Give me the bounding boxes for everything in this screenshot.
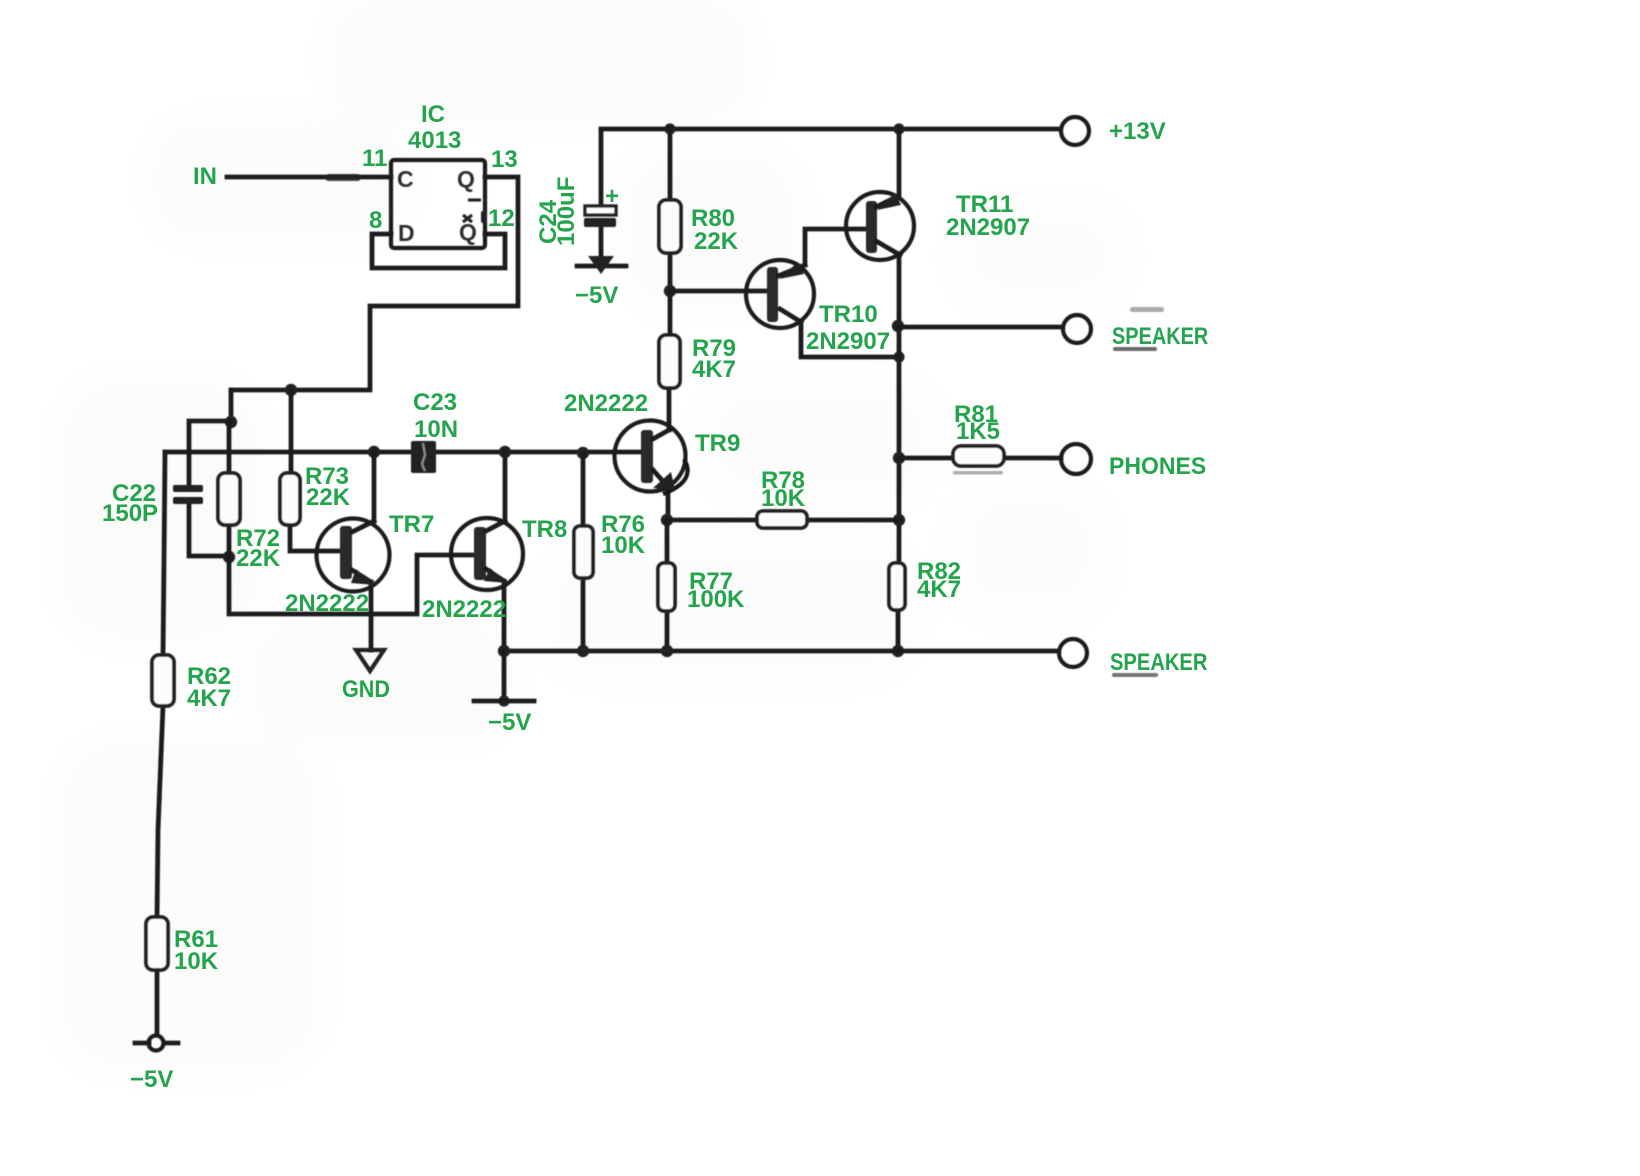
svg-text:+13V: +13V <box>1109 118 1166 145</box>
power -5V symbol under C24 <box>577 264 626 269</box>
capacitor C23 body <box>411 441 436 473</box>
svg-text:+: + <box>605 183 619 210</box>
svg-text:GND: GND <box>342 675 390 702</box>
wire R72 bottom <box>227 525 232 557</box>
wire down to C22/R72 node <box>229 390 234 422</box>
resistor R73 <box>280 473 300 525</box>
wire TR8 emitter to -5V bar <box>502 651 507 701</box>
wire C24 stem top <box>599 130 604 206</box>
svg-text:2N2907: 2N2907 <box>806 328 890 355</box>
scan smudge under SPEAKER top <box>1113 347 1157 351</box>
transistor TR10 <box>746 260 814 328</box>
node R78 right <box>893 514 905 526</box>
capacitor C22 plate bottom <box>173 497 203 504</box>
svg-text:−5V: −5V <box>130 1066 173 1093</box>
resistor R77 <box>658 563 675 611</box>
transistor TR7 <box>317 519 390 592</box>
capacitor C24 plate top <box>585 206 616 215</box>
svg-text:D: D <box>398 220 415 246</box>
svg-text:C: C <box>397 166 414 192</box>
svg-text:2N2222: 2N2222 <box>285 590 369 617</box>
svg-text:4K7: 4K7 <box>692 356 736 383</box>
wire R79 bottom to TR9 collector <box>667 388 672 430</box>
node TR7 collector on main line <box>368 446 380 458</box>
transistor TR11 <box>846 192 914 260</box>
svg-text:22K: 22K <box>236 545 281 572</box>
node R77 bottom rail <box>661 645 673 657</box>
wire main signal line left of C23 <box>165 450 413 455</box>
node C22/R72 top <box>225 416 237 428</box>
scan smudge under SPEAKER bottom <box>1112 673 1158 677</box>
node speaker top <box>892 320 904 332</box>
svg-text:−5V: −5V <box>488 709 531 736</box>
node R80/R79/TR10 base <box>664 285 676 297</box>
scan smudge under R81 <box>953 471 1003 475</box>
wire TR10 emitter to TR11 base <box>805 229 866 265</box>
resistor R61 <box>146 917 168 970</box>
svg-text:Q: Q <box>457 166 475 192</box>
wire C22 bottom to R72 bottom node <box>189 504 229 556</box>
wire ink blob on IN line <box>325 174 361 181</box>
svg-text:PHONES: PHONES <box>1109 453 1206 480</box>
wire phones node to R81 <box>899 456 954 461</box>
node TR10 collector / output rail <box>893 351 904 362</box>
wire R76 top <box>581 453 586 526</box>
node phones <box>893 452 905 464</box>
resistor R80 <box>659 200 681 253</box>
svg-text:10K: 10K <box>601 532 646 559</box>
svg-text:1K5: 1K5 <box>956 418 1000 445</box>
wire node down and right to TR8 base <box>229 555 473 614</box>
svg-text:11: 11 <box>362 145 387 172</box>
wire TR10 collector down and right <box>801 322 899 357</box>
wire C22 top branch <box>189 421 231 485</box>
svg-text:C23: C23 <box>413 389 457 416</box>
wire R80 top <box>668 129 673 200</box>
capacitor C24 plate bottom <box>584 218 616 227</box>
wire R62 to R61 <box>157 706 163 917</box>
wire TR8 collector up to main line <box>503 452 508 521</box>
terminal SPEAKER bottom <box>1059 639 1087 667</box>
svg-text:SPEAKER: SPEAKER <box>1110 648 1207 675</box>
svg-text:4013: 4013 <box>408 127 461 154</box>
node R76 bottom rail <box>577 645 589 657</box>
svg-text:4K7: 4K7 <box>917 576 961 603</box>
wire TR9 emitter down to node <box>666 487 671 519</box>
svg-text:12: 12 <box>488 205 515 232</box>
wire R73 bottom to TR7 base <box>290 525 340 551</box>
wire R61 to -5V terminal <box>155 970 160 1035</box>
svg-text:−5V: −5V <box>575 282 618 309</box>
wire to SPEAKER top terminal <box>898 325 1062 330</box>
terminal SPEAKER top <box>1063 315 1091 343</box>
IC socket bracket <box>372 234 505 268</box>
svg-text:2N2907: 2N2907 <box>946 214 1030 241</box>
resistor R62 <box>152 655 174 706</box>
svg-text:10K: 10K <box>174 948 219 975</box>
resistor R72 <box>218 473 240 525</box>
wire C24 stem bottom <box>599 227 604 256</box>
svg-text:TR9: TR9 <box>695 430 740 457</box>
wire R73 top branch <box>289 390 294 473</box>
resistor R76 <box>574 526 593 578</box>
svg-text:TR10: TR10 <box>819 301 878 328</box>
resistor R78 <box>757 511 807 528</box>
ground symbol GND <box>356 650 384 671</box>
svg-text:2N2222: 2N2222 <box>564 390 648 417</box>
terminal -5V bottom left <box>149 1036 164 1051</box>
svg-text:22K: 22K <box>694 228 739 255</box>
svg-text:TR7: TR7 <box>389 511 434 538</box>
IC internal dash <box>468 198 481 201</box>
wire TR7 collector up to main line <box>372 452 377 521</box>
svg-text:10N: 10N <box>414 416 458 443</box>
wire +13V top rail <box>601 127 1060 132</box>
node TR8 collector on main line <box>499 446 511 458</box>
svg-text:10K: 10K <box>761 485 806 512</box>
terminal +13V <box>1061 117 1089 145</box>
node top rail / R80 junction <box>664 123 675 134</box>
wire IN to IC pin 11 <box>227 175 391 180</box>
wire TR7 emitter down to GND <box>369 582 374 650</box>
wire -5V bar under TR8 <box>474 699 534 704</box>
wire node to R79 top <box>668 291 673 335</box>
node R76 top on main line <box>577 447 589 459</box>
wire R76 bottom <box>581 578 586 651</box>
wire TR11 collector rail from top <box>897 129 902 196</box>
wire R72 top <box>227 422 232 473</box>
wire R82 bottom <box>896 610 901 651</box>
wire IC pin 13/12 loop to lower circuit <box>231 177 518 390</box>
resistor R81 <box>953 446 1004 466</box>
wire TR8 emitter down <box>502 581 507 651</box>
wire bottom rail to SPEAKER terminal <box>504 649 1058 654</box>
wire output rail TR11 collector down to R82 <box>897 255 902 563</box>
wire R80 bottom to node <box>668 253 673 291</box>
wire R78 right to output rail <box>807 518 899 523</box>
svg-text:13: 13 <box>491 146 518 173</box>
wire node to TR10 base <box>670 289 767 294</box>
wire left branch down to R62 <box>163 452 165 655</box>
node TR8 emitter bottom rail <box>498 645 510 657</box>
transistor TR8 <box>451 518 523 590</box>
IC edge smudge near pin 12 <box>481 211 487 223</box>
node bottom rail R82 <box>892 645 904 657</box>
wire node to R78 left <box>667 518 757 523</box>
terminal PHONES <box>1061 444 1091 474</box>
svg-text:4K7: 4K7 <box>187 685 231 712</box>
svg-text:TR8: TR8 <box>522 516 567 543</box>
resistor R82 <box>889 563 905 610</box>
svg-text:SPEAKER: SPEAKER <box>1112 322 1208 349</box>
wire R77 top <box>665 520 670 563</box>
capacitor C22 plate top <box>173 485 203 492</box>
svg-text:100K: 100K <box>687 586 745 613</box>
resistor R79 <box>659 335 680 388</box>
node R73 branch on pin-8 wire <box>285 384 297 396</box>
IC pin Qbar x mark <box>463 215 472 222</box>
node TR9 emitter / R78 / R77 <box>661 514 673 526</box>
node at -5V bar <box>498 695 509 706</box>
svg-text:22K: 22K <box>306 484 351 511</box>
svg-text:IN: IN <box>193 163 217 190</box>
IC U1 4013 body <box>391 160 485 248</box>
wire R77 bottom <box>665 611 670 651</box>
node R72/C22 bottom <box>223 551 235 563</box>
svg-text:IC: IC <box>421 101 445 128</box>
wire R81 to PHONES terminal <box>1004 456 1061 461</box>
wire main signal line right of C23 <box>435 450 640 455</box>
svg-text:2N2222: 2N2222 <box>422 596 506 623</box>
node top rail / TR11 junction <box>893 123 904 134</box>
svg-text:100uF: 100uF <box>553 177 580 246</box>
svg-text:150P: 150P <box>102 500 158 527</box>
transistor TR9 <box>615 421 686 492</box>
svg-text:Q: Q <box>459 219 477 245</box>
svg-text:8: 8 <box>369 207 382 234</box>
